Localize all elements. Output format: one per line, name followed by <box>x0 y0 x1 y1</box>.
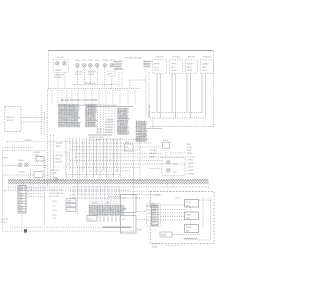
svg-text:5NV7: 5NV7 <box>171 67 176 69</box>
svg-text:D44: D44 <box>88 219 91 221</box>
svg-text:KG3: KG3 <box>67 205 71 207</box>
svg-text:71M10: 71M10 <box>88 74 94 76</box>
svg-text:ZVLR: ZVLR <box>82 60 87 62</box>
svg-text:TPP6K: TPP6K <box>171 64 178 66</box>
svg-text:HBVTS: HBVTS <box>55 70 62 72</box>
svg-text:K13: K13 <box>126 148 129 150</box>
svg-text:468WCSWW7ESUP5HSL: 468WCSWW7ESUP5HSL <box>59 126 81 128</box>
svg-text:PWRDDY: PWRDDY <box>203 57 212 59</box>
svg-text:CZETV9: CZETV9 <box>156 57 163 59</box>
svg-text:PHKE: PHKE <box>163 140 169 142</box>
svg-text:1D89B: 1D89B <box>152 246 159 248</box>
svg-text:RVEM: RVEM <box>103 60 109 62</box>
svg-text:A4AB: A4AB <box>161 234 167 237</box>
svg-text:M64: M64 <box>27 191 31 193</box>
svg-text:N1SH: N1SH <box>187 153 193 155</box>
svg-text:YVTHBN: YVTHBN <box>150 150 158 152</box>
svg-text:WPCPC: WPCPC <box>7 120 15 122</box>
svg-text:GFYWX6: GFYWX6 <box>55 155 63 157</box>
svg-text:PKT9: PKT9 <box>173 163 178 165</box>
svg-text:87LK: 87LK <box>52 215 57 217</box>
svg-text:A0T4NF: A0T4NF <box>106 131 114 134</box>
svg-text:YYPM9: YYPM9 <box>50 173 56 175</box>
svg-text:SELAR7: SELAR7 <box>152 243 159 246</box>
svg-text:FPDV: FPDV <box>137 230 143 232</box>
svg-text:5NWY: 5NWY <box>3 158 9 160</box>
svg-text:CKET11: CKET11 <box>18 171 25 173</box>
svg-text:Y03K: Y03K <box>2 191 7 193</box>
svg-text:YX38UCP: YX38UCP <box>24 140 33 142</box>
svg-text:DDW98 WAG 5K: DDW98 WAG 5K <box>49 192 64 195</box>
svg-text:YYM: YYM <box>52 218 57 220</box>
svg-text:SBP4S6: SBP4S6 <box>54 77 61 79</box>
svg-text:6RW9: 6RW9 <box>150 156 155 158</box>
svg-text:DCED: DCED <box>186 227 192 229</box>
svg-text:92HUU: 92HUU <box>150 153 157 155</box>
svg-text:C05VDE: C05VDE <box>55 162 63 164</box>
svg-text:PECS: PECS <box>95 60 101 62</box>
svg-text:NGXPL1: NGXPL1 <box>114 69 121 71</box>
svg-text:FWY4: FWY4 <box>97 132 102 134</box>
svg-text:26VH: 26VH <box>52 201 57 203</box>
svg-text:8NKE7C: 8NKE7C <box>7 117 15 119</box>
svg-text:RK8T8: RK8T8 <box>154 64 160 66</box>
svg-text:116E: 116E <box>125 142 130 144</box>
svg-text:AFTM49: AFTM49 <box>188 56 195 59</box>
svg-text:0TGZKC0ZN7: 0TGZKC0ZN7 <box>89 140 101 142</box>
svg-text:SLBU4W: SLBU4W <box>153 195 161 197</box>
svg-text:KFEX3: KFEX3 <box>188 160 194 162</box>
svg-text:V6TLG: V6TLG <box>1 222 8 224</box>
svg-text:1Z1L: 1Z1L <box>52 205 56 207</box>
svg-text:X6C1K: X6C1K <box>97 129 104 131</box>
svg-text:5M606: 5M606 <box>55 158 61 160</box>
svg-text:8R3DM: 8R3DM <box>187 64 194 66</box>
svg-text:2CL6: 2CL6 <box>45 174 50 176</box>
svg-text:197: 197 <box>152 223 155 225</box>
svg-text:B117: B117 <box>173 171 177 173</box>
svg-text:U99: U99 <box>186 205 189 207</box>
svg-text:FY0E: FY0E <box>187 147 192 149</box>
svg-text:62ZN99: 62ZN99 <box>34 152 41 154</box>
svg-text:844EK: 844EK <box>188 163 194 165</box>
svg-text:FNEE: FNEE <box>202 67 208 69</box>
svg-text:TE6GD: TE6GD <box>171 70 178 72</box>
svg-text:50547: 50547 <box>154 70 159 72</box>
svg-text:2FW1: 2FW1 <box>88 60 93 62</box>
svg-text:K9N: K9N <box>186 218 190 220</box>
svg-text:G8: G8 <box>147 210 149 212</box>
svg-text:BSSAEDSE: BSSAEDSE <box>85 82 96 85</box>
svg-text:1GYT7H: 1GYT7H <box>1 219 9 221</box>
svg-text:31MBL6: 31MBL6 <box>18 160 25 162</box>
svg-text:F61: F61 <box>122 219 125 221</box>
svg-text:7M0M: 7M0M <box>186 214 192 216</box>
svg-text:4PGG: 4PGG <box>154 67 160 69</box>
svg-text:6N6: 6N6 <box>187 144 190 146</box>
svg-text:DGD3ZG: DGD3ZG <box>172 57 180 59</box>
svg-text:LPZS: LPZS <box>175 198 180 200</box>
svg-text:0UC7H: 0UC7H <box>75 74 82 76</box>
svg-text:7W59L: 7W59L <box>187 70 193 72</box>
svg-text:2A2U: 2A2U <box>187 66 192 69</box>
svg-text:WXM: WXM <box>187 150 192 152</box>
svg-text:MODEL NO 254T: MODEL NO 254T <box>125 57 143 59</box>
svg-text:79X9BF 37 TR0: 79X9BF 37 TR0 <box>49 190 63 192</box>
svg-text:W0DZV: W0DZV <box>56 143 63 145</box>
svg-text:DW24 TM: DW24 TM <box>50 170 59 172</box>
svg-text:KNK5D: KNK5D <box>188 170 195 172</box>
svg-text:T3HTC: T3HTC <box>202 70 209 72</box>
svg-text:U131 C3DP: U131 C3DP <box>49 196 60 198</box>
svg-text:FL-SW: FL-SW <box>57 57 64 59</box>
svg-text:F4YURYTU3: F4YURYTU3 <box>149 104 151 118</box>
svg-text:H153: H153 <box>56 146 61 148</box>
svg-text:ELECTRONIC CONTROL: ELECTRONIC CONTROL <box>61 98 98 102</box>
svg-text:HLXMM: HLXMM <box>188 174 195 176</box>
svg-text:HTSEZ: HTSEZ <box>144 67 151 69</box>
svg-text:VAM5: VAM5 <box>75 59 80 62</box>
svg-text:DD8MD: DD8MD <box>202 64 209 66</box>
svg-text:YE670: YE670 <box>188 167 194 169</box>
